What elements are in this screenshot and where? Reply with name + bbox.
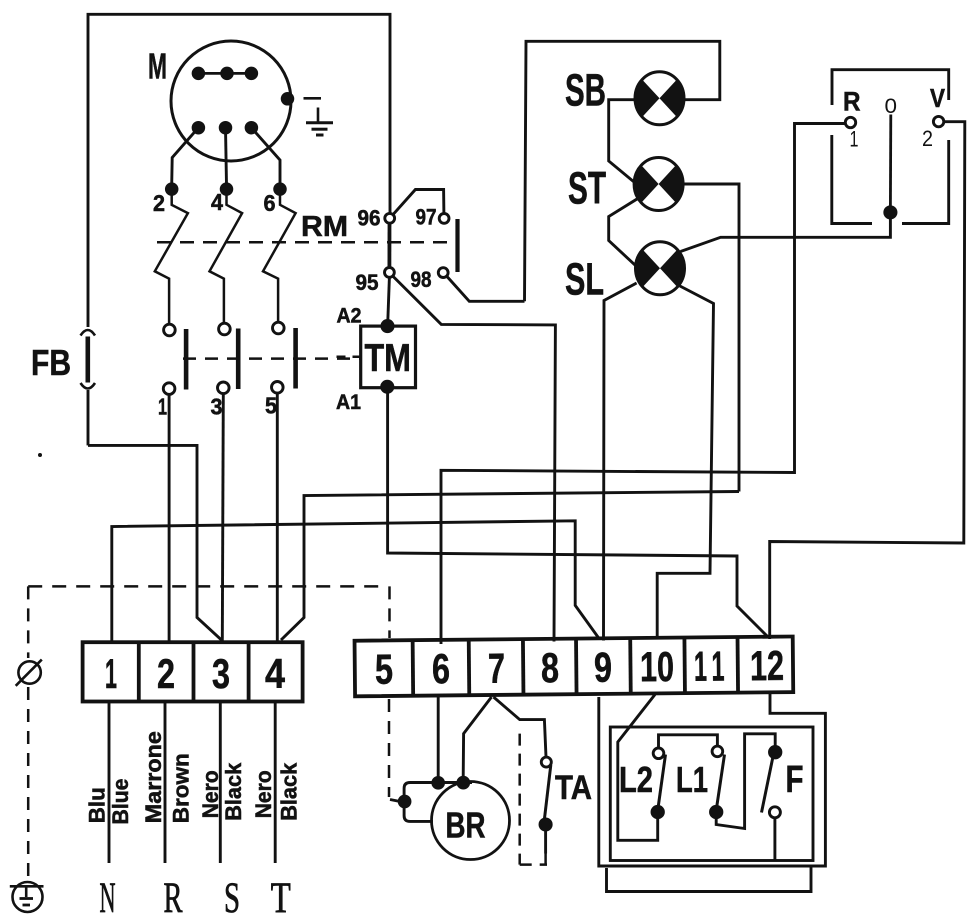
relay contact RM 97 bbox=[439, 214, 449, 224]
svg-text:V: V bbox=[930, 83, 946, 113]
svg-text:Blu: Blu bbox=[85, 787, 110, 823]
svg-text:RM: RM bbox=[301, 211, 348, 243]
node BR b bbox=[458, 777, 469, 788]
terminal strip 5-12 bbox=[355, 636, 794, 696]
wire 95 to terminal 8 bbox=[393, 277, 555, 642]
svg-text:S: S bbox=[224, 875, 240, 920]
wire ST left chain to SL bbox=[609, 199, 637, 266]
overload element phase 6 bbox=[263, 193, 296, 323]
svg-text:R: R bbox=[164, 875, 183, 920]
contactor main contact 1-2 bbox=[164, 324, 176, 336]
wire terminal 6 to BR bbox=[437, 696, 440, 779]
L2 node bbox=[652, 806, 663, 817]
wire terminal 4 to T bbox=[274, 702, 277, 864]
contactor dashed link to TM bbox=[183, 357, 360, 360]
svg-text:1: 1 bbox=[105, 650, 117, 697]
svg-text:A2: A2 bbox=[337, 305, 362, 328]
node BR a bbox=[433, 777, 444, 788]
svg-text:6: 6 bbox=[432, 645, 450, 692]
timer TM box bbox=[361, 326, 416, 388]
svg-text:4: 4 bbox=[211, 189, 223, 215]
svg-text:Brown: Brown bbox=[168, 753, 193, 823]
svg-text:A1: A1 bbox=[336, 391, 361, 414]
svg-text:5: 5 bbox=[265, 393, 277, 419]
svg-text:3: 3 bbox=[211, 394, 223, 420]
wire terminal 2 to R bbox=[164, 702, 167, 864]
svg-text:TM: TM bbox=[365, 337, 412, 380]
svg-text:Black: Black bbox=[221, 762, 246, 821]
wire 95 to TM A2 bbox=[388, 277, 390, 324]
wire SB right to 98 riser bbox=[525, 41, 720, 301]
TM dashed stub bbox=[337, 356, 361, 359]
wire terminal 7 to BR bbox=[463, 697, 491, 778]
wire FB to terminal 3 bbox=[88, 445, 222, 640]
node 6 bbox=[275, 184, 286, 195]
selector contact R bbox=[845, 117, 855, 127]
motor M bbox=[171, 41, 291, 161]
motor winding lower dots bbox=[193, 122, 257, 133]
motor lead to terminal 4 bbox=[226, 128, 227, 185]
ground (motor earth) bbox=[304, 98, 334, 135]
link dashed earth to BR bbox=[390, 800, 400, 802]
dashed earth drop to BR bbox=[28, 586, 389, 880]
switch F node bbox=[770, 747, 781, 758]
TA dashed boundary bbox=[520, 734, 547, 865]
svg-text:6: 6 bbox=[264, 190, 276, 216]
wire contact1 to terminal 2 bbox=[168, 394, 171, 643]
svg-text:10: 10 bbox=[640, 643, 674, 690]
wire SL left to terminal 9 rail bbox=[604, 283, 637, 641]
wire terminal 1 to N bbox=[108, 702, 111, 864]
svg-text:T: T bbox=[271, 875, 291, 920]
wire terminal 10 to L2 bbox=[618, 695, 658, 841]
burner box bottom bracket bbox=[607, 867, 812, 892]
node 4 bbox=[221, 184, 232, 195]
switch F contact bbox=[769, 807, 780, 818]
burner control box inner bbox=[610, 727, 813, 861]
motor lead to terminal 2 bbox=[172, 128, 199, 185]
svg-text:3: 3 bbox=[212, 650, 230, 697]
svg-text:1: 1 bbox=[694, 643, 707, 690]
speck bbox=[38, 453, 42, 457]
svg-text:2: 2 bbox=[153, 190, 165, 216]
lamp SL bbox=[636, 242, 685, 295]
wire SL right to selector pole bbox=[681, 214, 891, 252]
svg-text:9: 9 bbox=[594, 644, 612, 691]
wire terminal 7 to TA bbox=[494, 697, 547, 757]
svg-text:Nero: Nero bbox=[198, 770, 223, 818]
svg-text:Black: Black bbox=[277, 762, 302, 821]
svg-text:97: 97 bbox=[416, 205, 437, 230]
svg-text:12: 12 bbox=[750, 642, 784, 689]
wire supply loop from FB to RM96 bbox=[88, 14, 390, 327]
svg-text:8: 8 bbox=[541, 644, 559, 691]
wire contact5 to terminal 4 bbox=[276, 393, 279, 643]
node A2 bbox=[382, 321, 393, 332]
relay contact RM 98 bbox=[438, 268, 448, 278]
svg-text:1: 1 bbox=[850, 127, 859, 152]
svg-text:0: 0 bbox=[885, 95, 898, 118]
selector pole 0 bbox=[889, 115, 892, 208]
svg-text:TA: TA bbox=[555, 769, 592, 807]
dashed earth bus bbox=[28, 585, 387, 588]
wire terminal 3 to S bbox=[219, 702, 222, 864]
motor earth dot bbox=[282, 94, 293, 105]
wire L2 top bridge to L1 bbox=[659, 735, 718, 748]
svg-text:SB: SB bbox=[565, 65, 606, 116]
svg-text:96: 96 bbox=[358, 206, 381, 231]
earth symbol bbox=[10, 882, 44, 912]
RM fixed bar bbox=[455, 219, 459, 272]
fuse FB bbox=[81, 330, 96, 445]
svg-text:2: 2 bbox=[922, 126, 933, 151]
blower BR bbox=[404, 782, 509, 860]
wire L1 to F top bbox=[716, 734, 775, 829]
bus terminal 1 to terminal 9 bbox=[112, 521, 600, 643]
lamp SB bbox=[635, 72, 684, 125]
wire ST right to bus B bbox=[682, 184, 739, 492]
wire SL lower-right to terminal 10 bbox=[657, 285, 713, 640]
svg-text:BR: BR bbox=[446, 805, 486, 846]
wire TM A1 down and to terminal 12 bbox=[388, 392, 769, 638]
wire F to box bottom bbox=[773, 818, 776, 861]
L1 blade bbox=[716, 755, 724, 810]
L1 node bbox=[711, 806, 722, 817]
svg-text:Blue: Blue bbox=[108, 779, 133, 825]
svg-text:2: 2 bbox=[157, 650, 175, 697]
bus B to terminal 4 bbox=[281, 492, 739, 641]
L2 blade bbox=[658, 755, 666, 810]
wire contact3 to terminal 3 bbox=[222, 394, 223, 643]
F blade bbox=[762, 758, 773, 813]
svg-text:SL: SL bbox=[565, 254, 604, 305]
wire R to terminal 6 bbox=[441, 124, 845, 645]
earth screw bbox=[16, 660, 42, 686]
svg-text:L2: L2 bbox=[619, 759, 653, 800]
RM moving bar 96-95 bbox=[387, 224, 391, 268]
svg-text:N: N bbox=[100, 875, 116, 920]
contactor main contact 5-6 bbox=[273, 322, 285, 334]
selector contact V bbox=[933, 116, 943, 126]
motor lead to terminal 6 bbox=[251, 128, 280, 185]
burner control box outer bbox=[599, 693, 826, 867]
wire 98 to SB riser bbox=[447, 277, 525, 302]
svg-text:ST: ST bbox=[568, 163, 606, 214]
selector inner bracket right bbox=[902, 140, 949, 224]
overload element phase 4 bbox=[210, 193, 243, 323]
selector switch top bracket bbox=[832, 70, 949, 105]
svg-text:F: F bbox=[786, 759, 804, 801]
svg-text:1: 1 bbox=[158, 394, 167, 420]
lamp ST bbox=[634, 158, 683, 211]
motor winding bridge bbox=[193, 68, 257, 79]
svg-text:5: 5 bbox=[375, 646, 393, 693]
overload element phase 2 bbox=[155, 193, 188, 324]
svg-text:Marrone: Marrone bbox=[141, 731, 166, 823]
node A1 bbox=[382, 381, 393, 392]
svg-text:7: 7 bbox=[488, 645, 505, 692]
svg-text:4: 4 bbox=[265, 650, 286, 697]
thermostat TA contact bbox=[541, 757, 551, 767]
svg-text:1: 1 bbox=[711, 642, 724, 689]
TA node bbox=[540, 819, 551, 830]
svg-text:M: M bbox=[148, 46, 167, 87]
wire V to terminal 12 bbox=[770, 122, 965, 639]
terminal strip 1-4 bbox=[83, 642, 303, 701]
svg-text:L1: L1 bbox=[676, 759, 708, 800]
switch L2 contact bbox=[653, 748, 664, 759]
svg-text:95: 95 bbox=[356, 270, 379, 295]
TA wire down bbox=[544, 830, 547, 854]
RM trip dashed line bbox=[157, 241, 452, 244]
relay contact RM 96 bbox=[385, 213, 395, 223]
RM arm 96 to 97 bbox=[393, 190, 444, 215]
node 2 bbox=[166, 184, 177, 195]
switch L1 contact bbox=[712, 746, 723, 757]
contactor main contact 3-4 bbox=[219, 323, 231, 335]
svg-text:FB: FB bbox=[31, 342, 71, 383]
relay contact RM 95 bbox=[385, 268, 395, 278]
node BR earth bbox=[399, 796, 410, 807]
selector inner bracket left bbox=[832, 135, 872, 224]
TA blade bbox=[544, 765, 551, 821]
svg-text:98: 98 bbox=[411, 267, 432, 292]
wire SB left to ST chain bbox=[609, 100, 637, 184]
svg-text:R: R bbox=[843, 87, 861, 117]
svg-text:Nero: Nero bbox=[251, 770, 276, 818]
